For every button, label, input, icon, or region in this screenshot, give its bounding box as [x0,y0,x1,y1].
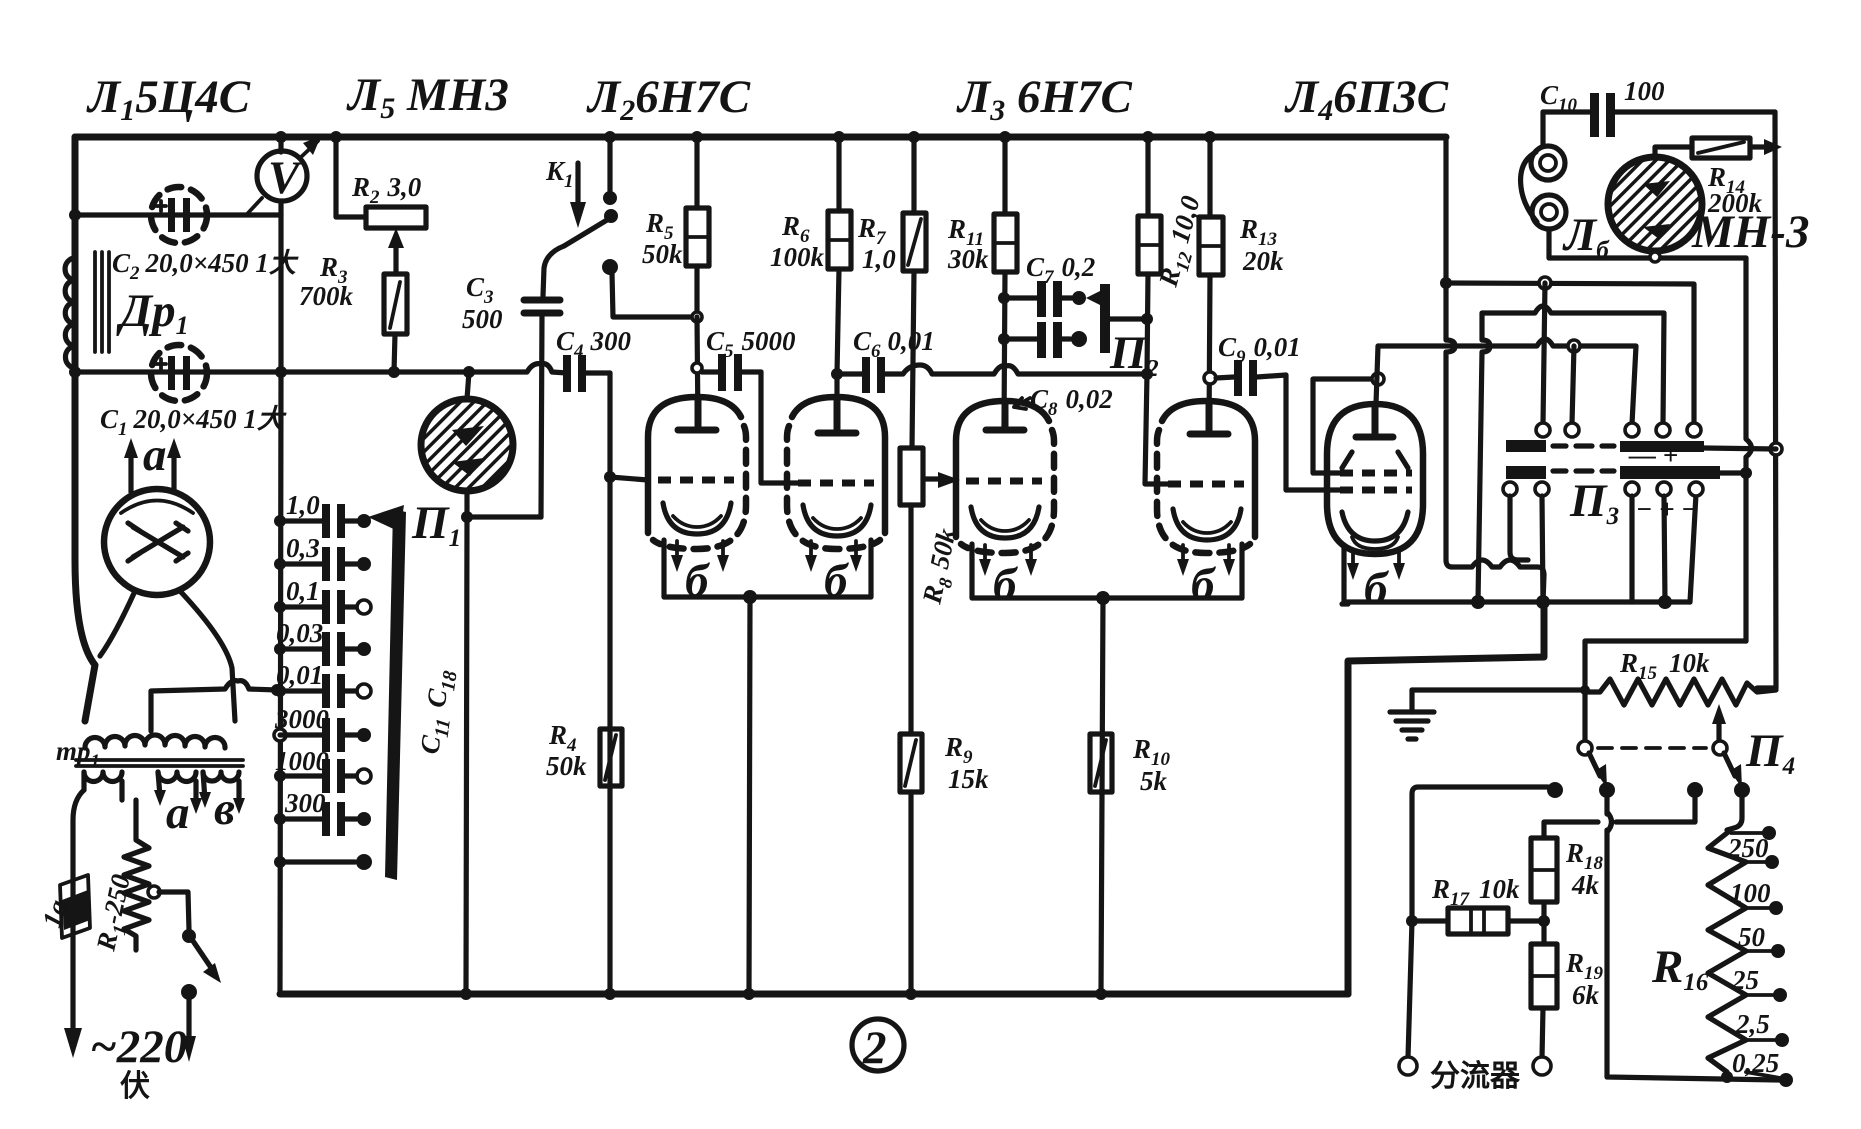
R16 top terminal [1731,831,1762,835]
wire voltmeter stem [278,201,283,215]
svg-text:~220: ~220 [90,1021,187,1073]
switch П4 [1578,741,1742,788]
capacitor C7 [1004,281,1086,317]
L4 anode [1356,404,1393,437]
terminal shunt right [1533,1057,1551,1075]
capacitor C11 1.0 [274,490,371,538]
node bus R13 [1204,131,1216,143]
node R16 bottom [1721,1071,1733,1083]
node bus K1 [604,131,616,143]
terminal shunt left [1399,1057,1417,1075]
svg-text:V: V [268,152,303,204]
wire mains left lead [73,790,84,1030]
svg-text:100: 100 [1730,878,1771,908]
capacitor C8 [1004,322,1087,358]
wire y604 lower bus [1342,601,1348,606]
svg-text:1,0: 1,0 [286,490,320,520]
resistor R17 [1412,908,1540,934]
node bus R12 [1142,131,1154,143]
resistor R2 [336,137,426,228]
svg-text:а: а [166,787,190,839]
svg-text:250: 250 [1727,833,1769,863]
triode L2a envelope [648,397,746,549]
L2b grid [798,480,874,487]
capacitor C18 300 [274,788,371,836]
capacitor C9 [1216,360,1340,490]
capacitor C12 0.3 [274,533,371,581]
wire V-band bus vertical [280,137,281,994]
wire return to R15 left [1585,641,1746,745]
core [76,760,243,766]
node bus R11 [999,131,1011,143]
resistor R5 [686,137,709,317]
wire left rail [75,137,95,721]
wire П3 tap stem [1572,346,1574,424]
wire top B+ bus [75,134,1446,141]
node left rail y215 [69,209,81,221]
svg-text:б: б [993,559,1019,611]
hop 1607 over y822 [1607,812,1612,832]
triode L2b envelope [787,397,885,549]
switch K1 [564,137,618,275]
capacitor C1 (dashed circle electrolytic) [151,345,207,401]
node C5 left [692,363,702,373]
capacitor C17 1000 [274,746,371,793]
L4 heater arrows [1347,552,1405,580]
secondary leads [84,772,239,806]
node bus R4 [604,988,616,1000]
L2b anode [818,397,856,433]
L3b grid [1168,481,1244,488]
node C7 left [998,292,1010,304]
svg-text:0,25: 0,25 [1732,1048,1779,1078]
resistor R6 [828,137,851,374]
resistor R15 zigzag [1585,679,1776,705]
node bus R10 [1095,988,1107,1000]
direct contact row [274,854,372,870]
svg-text:б: б [1364,563,1390,615]
resistor R1 zigzag [124,800,149,950]
node R3 bottom [388,366,400,378]
wire y567 from B+ [1452,560,1544,602]
node R12/C6 line [1141,368,1153,380]
node C3/П1 join [461,511,473,523]
node y283/1543 [1539,277,1551,289]
wire П1 down to bus [466,517,467,994]
connector П3 row2 bar [1506,466,1720,479]
switch П2 [1086,284,1144,353]
pentode L4 envelope [1327,404,1423,554]
svg-text:в: в [214,783,235,835]
potentiometer R15 wiper arrow [1712,704,1726,742]
wire cathode riser [1478,306,1664,602]
svg-text:50k: 50k [546,751,587,781]
capacitor C15 0.01 [271,660,371,708]
svg-text:0,01: 0,01 [276,660,323,690]
node П1 top [463,366,475,378]
capacitor C14 0.03 [274,618,371,666]
connector П3 row2 terminals [1503,482,1703,496]
resistor R19 [1531,944,1557,1058]
switch mains [148,886,221,1062]
capacitor C6 [837,357,1144,393]
wire row2 stems [1510,496,1528,560]
L3b anode [1190,401,1228,434]
node C6 left [831,368,843,380]
svg-text:a: a [143,429,167,481]
capacitor C10 [1543,93,1775,137]
svg-text:500: 500 [462,304,503,334]
triode L3a envelope [956,401,1054,553]
node box/1543 [1536,595,1550,609]
wire П3 row1 bar to B+ [1704,448,1776,449]
svg-text:0,03: 0,03 [276,618,323,648]
connector П3 row1 terminals [1536,423,1701,437]
L2a grid [658,477,734,484]
node bus/voltmeter [275,131,287,143]
L3a anode [986,401,1024,430]
resistor R11 [994,137,1017,427]
node C8 left [998,333,1010,345]
voltmeter V [248,136,321,213]
node bus П1 [460,988,472,1000]
secondary windings [84,772,122,782]
svg-text:0,3: 0,3 [286,533,320,563]
R16 tap 0.25 [1732,1048,1793,1087]
L3a grid [966,478,1042,485]
svg-text:6k: 6k [1572,980,1600,1010]
svg-text:1,0: 1,0 [862,244,896,274]
resistor R3 (adjustable) [384,228,407,372]
wire L4 cathode box [1344,545,1690,602]
svg-text:Л3 6Н7С: Л3 6Н7С [956,71,1133,127]
svg-text:МН-3: МН-3 [1691,206,1810,258]
wire row2 bar to return [1720,470,1746,475]
fuse holder 1a on mains lead [60,875,90,938]
node bus R6 [833,131,845,143]
connector П3 row1 bar [1506,440,1704,452]
resistor R18 [1531,838,1557,902]
wire Tr1 center tap to band caps [151,681,277,731]
capacitor C4 [563,355,610,392]
node R15 left / П4 [1580,685,1590,695]
L3b cathode [1173,509,1241,540]
node anode wire П3 tap [1568,340,1580,352]
node box/1665 [1658,595,1672,609]
capacitor C2 (dashed circle electrolytic) [151,187,207,243]
svg-text:20k: 20k [1242,246,1284,276]
wire 1543 stem down [1543,283,1545,424]
wire C2 row [75,212,281,217]
resistor R16 zigzag [1708,833,1746,1077]
inductor Dr1 choke [65,252,109,368]
svg-text:分流器: 分流器 [1430,1060,1521,1093]
L4 control grid [1340,487,1412,494]
primary winding [85,735,225,748]
svg-text:5k: 5k [1140,766,1168,796]
svg-text:0,1: 0,1 [286,576,320,606]
svg-text:300: 300 [284,788,326,818]
L4 cathode [1342,512,1408,541]
L2a anode [678,397,716,430]
resistor R9 [900,734,922,994]
svg-text:50k: 50k [642,239,683,269]
wire C4 down to R4 [607,373,612,994]
node R17 left [1406,915,1418,927]
wire C5 to L2 grid2 [761,372,800,483]
wire grid line to П1 and C4 [281,364,567,373]
node C9 tap [1204,372,1216,384]
wire K1 aux contact to R5 [612,273,691,317]
svg-text:Л15Ц4С: Л15Ц4С [86,71,251,127]
resistor R8 [900,448,923,734]
node V bus y372 [275,366,287,378]
figure number 2 [852,1019,904,1074]
L4 screen grid [1340,470,1412,477]
resistor R10 [1090,734,1112,792]
svg-text:Л46П3С: Л46П3С [1284,71,1449,127]
svg-text:100: 100 [1624,76,1665,106]
svg-text:2: 2 [862,1022,887,1074]
wire terminal 4 to R16 [1727,798,1742,830]
node bus R9 [905,988,917,1000]
svg-text:25: 25 [1731,965,1759,995]
wire R17 feed down [1408,921,1412,1058]
wire L3 heater box [972,544,1242,598]
svg-text:2,5: 2,5 [1735,1009,1770,1039]
R16 tap 25 [1731,965,1787,1002]
svg-text:— +: — + [1628,440,1678,470]
node R5/K1 [692,312,702,322]
svg-text:100k: 100k [770,242,825,272]
node bus R7 [908,131,920,143]
node B+ y283 [1440,277,1452,289]
microphone МН-3 disc [1608,147,1702,262]
wire R8 to L3 grid arrow [923,472,960,488]
resistor R4 [600,729,622,786]
triode L3b envelope [1157,401,1255,553]
node bus/R2 [330,131,342,143]
wire K1 blade to C3 [543,246,564,296]
svg-text:30k: 30k [947,244,989,274]
R16 tap 250 [1727,833,1779,869]
svg-text:700k: 700k [299,281,354,311]
L2b heater arrows [805,541,862,572]
wire L4 anode up and to П3 [1375,339,1636,433]
resistor R13 [1199,137,1223,431]
L2a cathode [663,503,731,534]
wire C1 row [75,369,281,374]
wire B+ right drop [1446,137,1455,567]
node L2 heater center [743,590,757,604]
wire R6 to L2 anode2 [834,374,839,429]
svg-text:б: б [1191,559,1217,611]
node B+/П3 link [1770,443,1782,455]
capacitor C16 3000 [274,704,371,752]
resistor R14 [1692,138,1782,158]
wire L4 screen tie [1313,379,1374,473]
rectifier tube L1 [104,489,210,595]
node bus R5 [691,131,703,143]
transformer Tr1 [76,735,245,814]
node box/cathode riser [1471,595,1485,609]
headphones L6 [1521,112,1746,258]
wire bottom box right end up [1690,494,1696,602]
ground wire [1412,687,1583,692]
L3b heater arrows [1177,545,1235,576]
wire L3 heater down [1101,598,1103,994]
node left rail y372 [69,366,81,378]
node L4 screen/anode [1372,373,1384,385]
wire L1 filament to transformer [100,591,235,721]
L2b cathode [803,505,871,536]
R16 tap 100 [1730,878,1783,915]
R16 tap 50 [1738,922,1785,958]
wire lower left feed [1348,604,1544,994]
terminal row under П4 [1547,782,1750,798]
capacitor C3 [524,300,560,517]
wire L1 anode leads with arrows to a [124,438,181,492]
switch bar П1 wiper [368,505,406,880]
resistor R12 [1138,137,1170,484]
svg-text:Л26Н7С: Л26Н7С [586,71,751,127]
node L3 heater center [1096,591,1110,605]
L3a cathode [971,507,1039,538]
node bus L2 heater [743,988,755,1000]
R16 tap 2.5 [1735,1009,1789,1047]
svg-text:50: 50 [1738,922,1766,952]
svg-text:4k: 4k [1571,870,1600,900]
L3a heater arrows [979,545,1037,576]
L2a heater arrows [671,541,729,572]
ground symbol [1390,690,1434,739]
wire bottom bus [280,991,1348,998]
wire terminal 2 down [1607,798,1780,1080]
switch П1 hatched disc [421,372,513,517]
node row2 bar / return [1740,467,1752,479]
capacitor C5 [702,354,761,391]
capacitor C13 0.1 [274,576,371,624]
node L2 grid tap [604,471,616,483]
wire C3 to П1 bottom [467,514,541,519]
node П2/R12 [1141,313,1153,325]
wire B+ far right vertical [1757,112,1776,688]
wire terminal 3 to R18 [1544,798,1695,838]
L4 beam plates [1342,452,1408,468]
wire R5 to L2 anode [697,317,698,427]
node R17/R18/R19 [1538,915,1550,927]
wire МН-3 return vertical [1746,258,1752,641]
svg-text:Л5 МН3: Л5 МН3 [346,69,509,125]
wire L2 heater box [664,540,871,597]
resistor R7 [903,137,926,448]
svg-text:15k: 15k [948,764,989,794]
svg-text:伏: 伏 [120,1070,150,1103]
wire L2 heater down [749,597,750,994]
wire terminal 1 left [1412,787,1548,921]
wire y283 to П3 [1446,283,1694,424]
